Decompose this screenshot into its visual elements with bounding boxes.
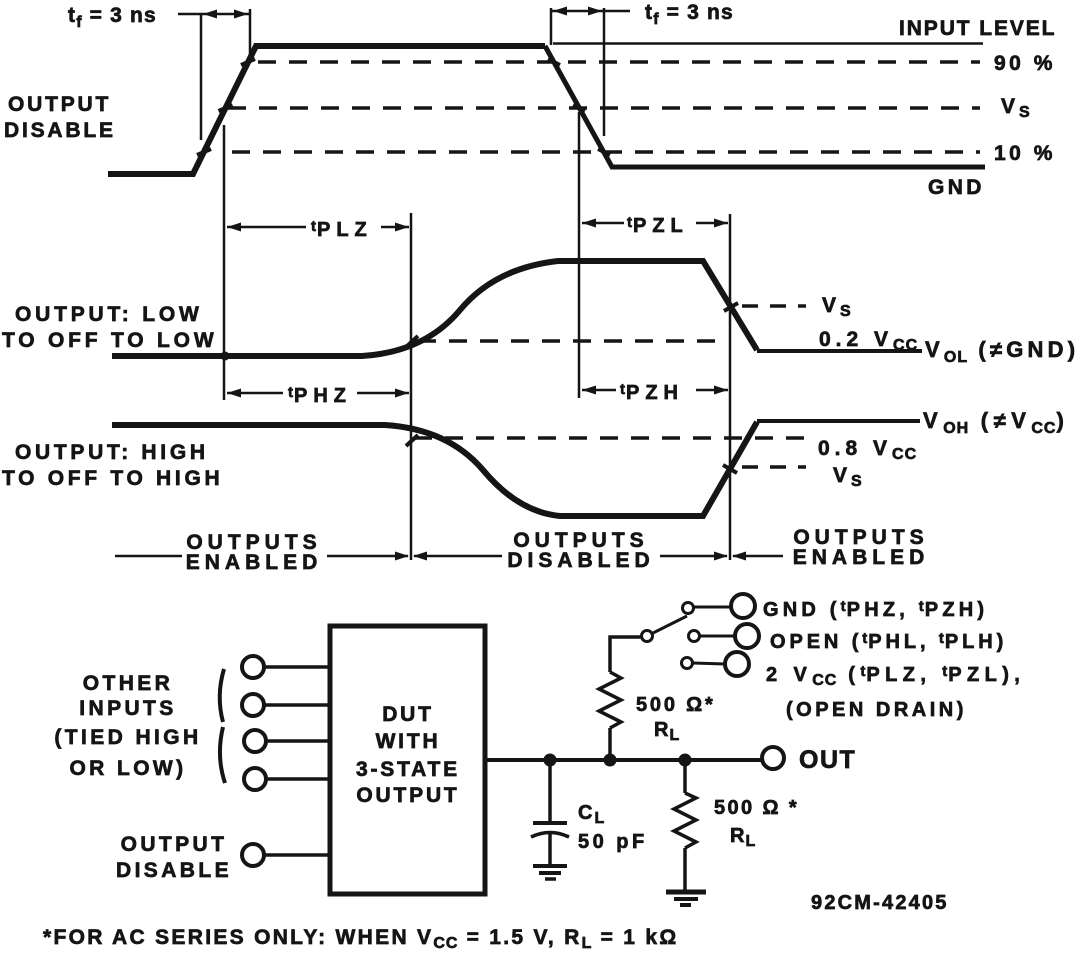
svg-text:ENABLED: ENABLED: [793, 546, 930, 569]
wire dimension vertical at 10% fall: [603, 8, 606, 136]
wire RL2 top lead: [683, 760, 687, 793]
wire tf dimension line right: [551, 7, 630, 16]
label 10 %: [994, 142, 1056, 165]
label OTHER INPUTS (TIED HIGH OR LOW): [54, 672, 201, 780]
svg-text:VOH (≠VCC): VOH (≠VCC): [923, 408, 1069, 437]
svg-text:tf = 3 ns: tf = 3 ns: [645, 1, 734, 28]
node tick on high waveform curve: [406, 435, 418, 446]
wire switch blade: [653, 616, 687, 633]
svg-text:VS: VS: [822, 294, 852, 320]
terminal GND: [731, 594, 755, 618]
resistor RL2: [674, 793, 696, 848]
svg-text:DUT: DUT: [382, 703, 434, 726]
label footnote: [43, 926, 679, 952]
svg-text:OUTPUT: HIGH: OUTPUT: HIGH: [15, 441, 209, 464]
node INPUT LEVEL reference line: [553, 42, 983, 45]
label 90 %: [994, 52, 1056, 75]
wire output high waveform: [112, 422, 757, 516]
svg-text:OUTPUT: OUTPUT: [356, 784, 459, 807]
svg-text:INPUTS: INPUTS: [79, 697, 176, 720]
svg-text:OTHER: OTHER: [83, 672, 174, 695]
svg-text:*FOR AC SERIES ONLY: WHEN VCC: *FOR AC SERIES ONLY: WHEN VCC = 1.5 V, R…: [43, 926, 679, 952]
svg-text:50 pF: 50 pF: [578, 831, 648, 853]
svg-text:DISABLE: DISABLE: [4, 119, 116, 142]
svg-text:VS: VS: [1001, 95, 1031, 121]
terminal 2VCC: [725, 652, 749, 676]
node brace lower arc: [220, 727, 225, 783]
node tick on low waveform curve: [406, 336, 418, 347]
svg-text:DISABLE: DISABLE: [116, 859, 232, 882]
wire VOL level line: [757, 349, 922, 353]
label 0.8 VCC: [818, 437, 917, 463]
wire output low waveform: [112, 261, 757, 356]
svg-text:10 %: 10 %: [994, 142, 1056, 165]
svg-text:GND (tPHZ, tPZH): GND (tPHZ, tPZH): [763, 598, 988, 621]
svg-text:WITH: WITH: [376, 730, 441, 753]
label 500 ohm RL2: [714, 797, 799, 850]
svg-text:OUTPUT: OUTPUT: [8, 93, 111, 116]
ground RL2: [666, 892, 706, 905]
terminal OUT: [762, 747, 784, 769]
wire input 4: [266, 777, 330, 781]
label CL 50 pF: [578, 802, 648, 853]
wire tPLZ left vertical: [223, 125, 226, 400]
svg-text:500 Ω *: 500 Ω *: [714, 797, 799, 819]
ground CL: [533, 866, 567, 879]
node VS dashed line low waveform: [742, 304, 806, 308]
label OUTPUT DISABLE: [4, 93, 116, 142]
wire dimension vertical at 90% rise: [249, 9, 252, 56]
node tick on high waveform rise: [723, 465, 737, 473]
node 0.2 VCC dashed line: [418, 339, 724, 343]
node switch contact OPEN: [689, 631, 700, 642]
label INPUT LEVEL: [899, 17, 1056, 40]
wire tPLZ dimension arrows: [227, 223, 409, 232]
svg-text:VOL (≠GND): VOL (≠GND): [925, 337, 1079, 366]
capacitor CL top plate: [533, 821, 567, 825]
terminal OPEN: [735, 624, 759, 648]
svg-text:RL: RL: [730, 825, 756, 850]
svg-text:OR LOW): OR LOW): [69, 757, 186, 780]
svg-text:ENABLED: ENABLED: [186, 551, 323, 574]
svg-text:RL: RL: [654, 719, 680, 744]
node switch contact 2VCC: [682, 658, 693, 669]
svg-text:INPUT LEVEL: INPUT LEVEL: [899, 17, 1056, 40]
svg-text:tPZL: tPZL: [627, 214, 689, 237]
label OUT: [799, 746, 856, 774]
svg-text:TO OFF TO HIGH: TO OFF TO HIGH: [2, 467, 223, 490]
wire input waveform rise/plateau: [108, 46, 545, 174]
node junction RL2: [679, 754, 692, 767]
wire tPZH dimension arrows: [582, 386, 728, 395]
label VOH (not VCC): [923, 408, 1069, 437]
svg-text:OUT: OUT: [799, 746, 856, 774]
wire dimension vertical at 90% fall: [550, 8, 553, 45]
label OUTPUTS ENABLED right: [793, 526, 930, 569]
wire outputs enabled arrow from second boundary: [732, 552, 783, 561]
node junction CL: [544, 754, 557, 767]
wire RL2 bottom lead: [683, 848, 687, 890]
wire DUT output to OUT: [485, 758, 762, 762]
label OUTPUT: LOW TO OFF TO LOW: [2, 303, 217, 352]
node VS dashed line high waveform: [742, 465, 806, 469]
svg-text:92CM-42405: 92CM-42405: [811, 892, 949, 914]
resistor RL1: [599, 672, 621, 728]
label tPHZ: [288, 384, 352, 407]
svg-text:tPZH: tPZH: [620, 381, 684, 404]
label 0.2 VCC: [819, 328, 918, 354]
label OUTPUT: HIGH TO OFF TO HIGH: [2, 441, 223, 490]
svg-text:CL: CL: [578, 802, 605, 827]
node brace upper arc: [220, 669, 224, 722]
node tick marks on rising edge: [197, 59, 255, 155]
wire CL bottom lead: [548, 833, 552, 865]
svg-text:tf = 3 ns: tf = 3 ns: [68, 4, 157, 31]
label VS low waveform: [822, 294, 852, 320]
node 90% dashed line: [258, 60, 980, 64]
wire outputs enabled arrow to first boundary: [327, 552, 409, 561]
svg-text:500 Ω*: 500 Ω*: [636, 694, 716, 716]
capacitor CL bottom plate: [531, 833, 569, 838]
wire contact 2VCC to terminal: [693, 663, 725, 664]
node junction RL1: [604, 754, 617, 767]
wire outputs disabled arrow from first boundary: [413, 552, 502, 561]
wire outputs disabled arrow to second boundary: [660, 552, 728, 561]
DUT box: [330, 626, 485, 894]
terminal input 1: [242, 656, 264, 678]
label OPEN (tPHL, tPLH): [770, 630, 1007, 653]
terminal input 2: [242, 694, 264, 716]
wire dimension vertical at 10% rise: [200, 14, 203, 140]
terminal input 4: [244, 768, 266, 790]
node junction dot left vertical low waveform: [221, 352, 230, 361]
svg-text:OUTPUT: OUTPUT: [121, 833, 228, 856]
wire tPZL left vertical: [578, 112, 581, 398]
svg-text:DISABLED: DISABLED: [507, 549, 654, 572]
svg-text:2 VCC (tPLZ, tPZL),: 2 VCC (tPLZ, tPZL),: [766, 663, 1025, 689]
svg-text:GND: GND: [928, 176, 985, 199]
svg-text:(TIED HIGH: (TIED HIGH: [54, 726, 201, 749]
label GND (tPHZ, tPZH): [763, 598, 988, 621]
node 10% dashed line: [232, 150, 980, 154]
svg-text:VS: VS: [833, 464, 863, 490]
label 2 VCC (tPLZ, tPZL),: [766, 663, 1025, 689]
label tf = 3 ns left: [68, 4, 157, 31]
svg-text:0.2 VCC: 0.2 VCC: [819, 328, 918, 354]
label (OPEN DRAIN): [786, 699, 967, 721]
svg-text:OPEN (tPHL, tPLH): OPEN (tPHL, tPLH): [770, 630, 1007, 653]
wire tPZL dimension arrows: [582, 219, 728, 228]
wire VOH level line: [757, 419, 920, 423]
label VOL (not GND): [925, 337, 1079, 366]
wire tf dimension line left: [178, 10, 250, 19]
terminal output disable: [242, 844, 264, 866]
wire input 3: [266, 739, 330, 743]
label tPLZ: [311, 218, 373, 241]
wire tPLZ right vertical: [410, 213, 413, 560]
svg-text:TO OFF TO LOW: TO OFF TO LOW: [2, 329, 217, 352]
wire input 1: [264, 665, 330, 669]
label VS input: [1001, 95, 1031, 121]
node VS dashed line input: [228, 106, 980, 110]
wire CL top lead: [548, 760, 552, 821]
wire RL1 top lead: [610, 637, 641, 672]
svg-text:(OPEN DRAIN): (OPEN DRAIN): [786, 699, 967, 721]
wire RL1 bottom lead: [608, 728, 612, 760]
svg-text:3-STATE: 3-STATE: [356, 758, 460, 781]
label OUTPUT DISABLE input: [116, 833, 232, 882]
wire input 2: [264, 703, 330, 707]
node switch pole: [642, 631, 653, 642]
svg-text:0.8 VCC: 0.8 VCC: [818, 437, 917, 463]
wire tPHZ dimension arrows: [227, 389, 409, 398]
label tf = 3 ns right: [645, 1, 734, 28]
wire contact OPEN to terminal: [700, 635, 735, 638]
svg-text:tPLZ: tPLZ: [311, 218, 373, 241]
svg-text:tPHZ: tPHZ: [288, 384, 352, 407]
label OUTPUTS DISABLED: [507, 529, 654, 572]
label 500 ohm RL1: [636, 694, 716, 744]
label OUTPUTS ENABLED left: [186, 531, 323, 574]
node tick on low waveform fall: [724, 303, 738, 311]
terminal input 3: [244, 730, 266, 752]
wire output disable: [264, 853, 330, 857]
label VS high waveform: [833, 464, 863, 490]
node switch contact GND: [683, 603, 694, 614]
wire outputs enabled separator left: [115, 555, 182, 558]
label DUT WITH 3-STATE OUTPUT: [356, 703, 460, 807]
wire input waveform fall to GND: [545, 46, 985, 167]
label 92CM-42405: [811, 892, 949, 914]
label tPZH: [620, 381, 684, 404]
svg-text:90 %: 90 %: [994, 52, 1056, 75]
label tPZL: [627, 214, 689, 237]
wire tPZL right vertical: [729, 214, 732, 560]
node tick marks on falling edge: [548, 59, 610, 155]
label GND: [928, 176, 985, 199]
node 0.8 VCC dashed line: [414, 436, 808, 440]
svg-text:OUTPUT: LOW: OUTPUT: LOW: [15, 303, 203, 326]
wire contact GND to terminal: [694, 606, 731, 609]
